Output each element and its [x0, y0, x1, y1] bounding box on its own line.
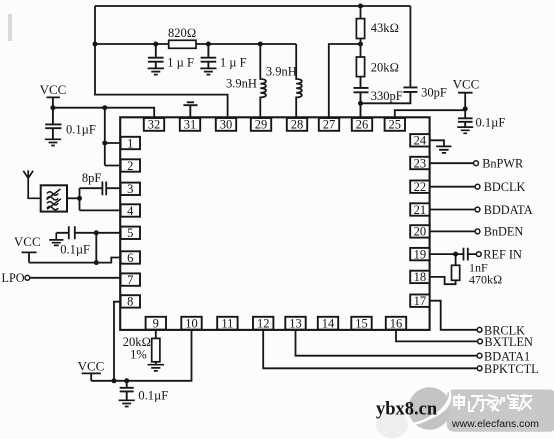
watermark chinese text 电子发烧友	[454, 394, 532, 411]
svg-text:15: 15	[355, 317, 368, 331]
svg-text:470kΩ: 470kΩ	[469, 273, 502, 287]
svg-text:43kΩ: 43kΩ	[371, 21, 399, 35]
power VCC (top right)	[453, 77, 480, 118]
node 1uF cap 2 tap	[206, 42, 211, 47]
node 1uF cap 1 tap	[153, 42, 158, 47]
svg-text:30: 30	[220, 118, 233, 132]
capacitor 1nF	[464, 248, 489, 275]
ground (20k 1%)	[148, 365, 164, 371]
svg-text:ybx8.cn: ybx8.cn	[376, 400, 438, 420]
svg-text:16: 16	[390, 317, 403, 331]
pin 2	[121, 159, 140, 173]
svg-text:20kΩ: 20kΩ	[371, 61, 399, 75]
svg-text:26: 26	[356, 118, 369, 132]
ground (pin 31)	[183, 102, 197, 118]
svg-text:5: 5	[127, 226, 133, 240]
node BnPWR terminal	[474, 161, 479, 166]
node 0.1uF rail junction	[124, 378, 129, 383]
pin 31	[180, 118, 200, 132]
node BDDATA terminal	[475, 207, 480, 212]
svg-text:7: 7	[127, 273, 133, 287]
svg-text:8: 8	[127, 295, 133, 309]
svg-text:BDCLK: BDCLK	[484, 180, 526, 194]
wire left rail to pin 30	[95, 6, 228, 118]
pin 15	[351, 317, 371, 331]
resistor 20k ohm	[356, 57, 399, 77]
pin 7	[121, 273, 140, 287]
pin 29	[251, 118, 271, 132]
inductor L1 3.9nH	[226, 44, 266, 118]
capacitor C 1uF (right)	[200, 44, 246, 75]
svg-text:19: 19	[414, 247, 427, 261]
node BDCLK terminal	[475, 184, 480, 189]
wire second rail (820 ohm rail)	[95, 43, 296, 45]
pin 6	[121, 251, 140, 265]
node top rail / 43k junction	[358, 4, 363, 9]
node 330pF/30pF junction	[358, 101, 363, 106]
node BnDEN terminal	[475, 229, 480, 234]
pin 11	[217, 317, 237, 331]
node 43k/20k/pin27 junction	[358, 42, 363, 47]
wire pin 21 to BDDATA	[430, 209, 475, 211]
power VCC (mid left)	[14, 234, 41, 263]
pin 20	[410, 225, 429, 239]
svg-text:BnDEN: BnDEN	[484, 225, 524, 239]
svg-text:2: 2	[127, 159, 133, 173]
wire pin 19 to 1nF	[430, 253, 463, 255]
pin 8	[121, 295, 140, 309]
svg-text:20: 20	[414, 225, 427, 239]
watermark elecfans box	[408, 385, 554, 432]
wire LPO to pin 7	[29, 277, 121, 279]
svg-text:25: 25	[389, 118, 402, 132]
wire stub to pin 1	[105, 142, 121, 144]
node left rail / second rail junction	[93, 42, 98, 47]
node BXTLEN terminal	[478, 339, 483, 344]
pin 1	[121, 136, 140, 150]
pin 17	[410, 294, 429, 308]
ground (pin 5 cap)	[49, 233, 63, 246]
node pin 8 rail junction	[112, 378, 117, 383]
node antenna feed junction	[77, 196, 82, 201]
pin 18	[410, 270, 429, 284]
capacitor 0.1uF (bottom)	[119, 381, 169, 407]
wire stub to pin 2	[105, 165, 121, 167]
svg-text:1%: 1%	[130, 348, 147, 362]
svg-text:10: 10	[185, 317, 198, 331]
svg-text:www.elecfans.com: www.elecfans.com	[451, 418, 539, 430]
svg-text:14: 14	[322, 317, 335, 331]
svg-text:330pF: 330pF	[371, 89, 403, 103]
pin 4	[121, 204, 140, 218]
pin 26	[352, 118, 372, 132]
ground (pin 24)	[430, 140, 451, 153]
capacitor 0.1uF (top left decoupling)	[45, 108, 96, 146]
pin 32	[144, 118, 164, 132]
pin 25	[385, 118, 405, 132]
node pin5 junction	[94, 230, 99, 235]
pin 3	[121, 182, 140, 196]
node pin6 junction	[94, 260, 99, 265]
resistor 470k ohm	[452, 254, 503, 286]
wire pin 17 to BRCLK	[430, 301, 477, 330]
IC U1 body outline	[120, 117, 429, 330]
capacitor 8pF	[80, 171, 121, 195]
svg-text:21: 21	[414, 203, 427, 217]
svg-text:0.1µF: 0.1µF	[138, 389, 168, 403]
node BDATA1 terminal	[477, 353, 482, 358]
svg-text:23: 23	[414, 156, 427, 170]
capacitor 0.1uF (top right decoupling)	[457, 116, 505, 134]
svg-text:3: 3	[127, 182, 133, 196]
wire pin 12 to BPKTCTL	[263, 330, 477, 369]
svg-text:BnPWR: BnPWR	[482, 157, 524, 171]
wire top rail	[95, 5, 410, 7]
wire top rail drop to 30pF	[409, 6, 411, 87]
svg-text:9: 9	[153, 317, 159, 331]
pin 28	[287, 118, 307, 132]
svg-text:BDDATA: BDDATA	[484, 203, 533, 217]
svg-text:18: 18	[414, 270, 427, 284]
svg-text:30pF: 30pF	[421, 86, 447, 100]
resistor 20k ohm 1%	[123, 330, 160, 365]
pin 10	[181, 317, 201, 331]
svg-text:12: 12	[257, 317, 270, 331]
pin 14	[318, 317, 338, 331]
pin 12	[253, 317, 273, 331]
svg-text:3.9nH: 3.9nH	[226, 77, 257, 91]
wire pin 5 wire	[75, 232, 120, 234]
svg-text:28: 28	[291, 118, 304, 132]
svg-text:4: 4	[127, 204, 134, 218]
wire branch to pin 27	[329, 44, 361, 118]
svg-text:VCC: VCC	[40, 82, 67, 97]
pin 19	[410, 247, 429, 261]
svg-text:0.1µF: 0.1µF	[66, 122, 96, 136]
svg-text:8pF: 8pF	[82, 171, 102, 185]
svg-text:1 µ F: 1 µ F	[220, 56, 247, 70]
pin 9	[146, 317, 166, 331]
node inductor 1 tap	[258, 42, 263, 47]
node BPKTCTL terminal	[477, 366, 482, 371]
pin 30	[216, 118, 236, 132]
wire pin5-pin6 link	[95, 233, 97, 263]
svg-text:3.9nH: 3.9nH	[266, 65, 297, 79]
wire pin 22 to BDCLK	[430, 186, 475, 188]
wire pin 20 to BnDEN	[430, 230, 475, 232]
svg-text:VCC: VCC	[78, 358, 105, 373]
svg-text:1 µ F: 1 µ F	[167, 56, 194, 70]
wire branch down to pins 1,2	[104, 108, 106, 166]
antenna	[23, 170, 40, 198]
wire junction riser	[79, 188, 81, 210]
svg-text:0.1µF: 0.1µF	[60, 243, 90, 257]
svg-text:17: 17	[414, 294, 427, 308]
wire VCC to pin 6	[29, 258, 121, 263]
scan smudge bottom	[376, 412, 408, 438]
wire pin 16 to BXTLEN	[396, 330, 477, 342]
wire pin 18 to 470k bottom	[430, 277, 455, 284]
capacitor 30pF	[361, 86, 447, 104]
node BRCLK terminal	[477, 327, 482, 332]
svg-text:0.1µF: 0.1µF	[476, 116, 506, 130]
wire VCC feed to pin 32	[53, 108, 154, 118]
pin 21	[410, 203, 429, 217]
svg-text:VCC: VCC	[453, 77, 480, 92]
wire 43k to 20k	[360, 39, 362, 58]
wire pin 23 to BnPWR	[430, 162, 473, 164]
svg-text:BXTLEN: BXTLEN	[484, 335, 533, 349]
svg-text:BPKTCTL: BPKTCTL	[484, 362, 539, 376]
node pin 1 tap	[102, 141, 107, 146]
svg-text:31: 31	[184, 118, 197, 132]
svg-text:13: 13	[289, 317, 302, 331]
capacitor 0.1uF (pin 5)	[56, 226, 90, 256]
capacitor C 1uF (left)	[148, 44, 194, 75]
svg-text:6: 6	[127, 251, 133, 265]
node pin1/2 branch junction	[102, 105, 107, 110]
wire pin 10 to VCC rail	[91, 330, 191, 381]
svg-text:820Ω: 820Ω	[168, 26, 196, 40]
svg-text:REF IN: REF IN	[483, 247, 522, 261]
filter FL1 (band filter)	[41, 185, 67, 211]
svg-text:22: 22	[414, 180, 427, 194]
svg-text:29: 29	[255, 118, 268, 132]
node VCC right junction	[463, 106, 468, 111]
svg-text:1: 1	[127, 136, 133, 150]
pin 24	[410, 134, 429, 148]
pin 16	[386, 317, 406, 331]
wire pin 25 to VCC node	[395, 110, 465, 118]
scan smudge	[8, 14, 12, 41]
node VCC junction	[50, 105, 55, 110]
power VCC (bottom)	[78, 358, 105, 381]
svg-text:27: 27	[323, 118, 336, 132]
inductor L2 3.9nH	[266, 44, 302, 118]
pin 27	[319, 118, 339, 132]
svg-text:LPO: LPO	[2, 271, 25, 285]
pin 13	[285, 317, 305, 331]
wire pin 13 to BDATA1	[296, 330, 478, 356]
wire filter to junction	[67, 197, 80, 199]
power VCC (top left)	[40, 82, 67, 108]
node REF IN / 470k junction	[453, 252, 458, 257]
svg-text:VCC: VCC	[14, 234, 41, 249]
svg-text:11: 11	[221, 317, 233, 331]
node LPO terminal	[25, 275, 30, 280]
pin 5	[121, 226, 140, 240]
node REF IN terminal	[476, 252, 481, 257]
pin 23	[410, 156, 429, 170]
svg-text:24: 24	[414, 134, 427, 148]
svg-text:32: 32	[148, 118, 161, 132]
resistor 820 ohm	[168, 26, 196, 48]
wire junction to pin 4	[80, 209, 121, 211]
wire rail up to pin 8	[114, 302, 121, 381]
pin 22	[410, 180, 429, 194]
resistor 43k ohm	[356, 6, 399, 39]
capacitor 330pF	[354, 77, 403, 118]
